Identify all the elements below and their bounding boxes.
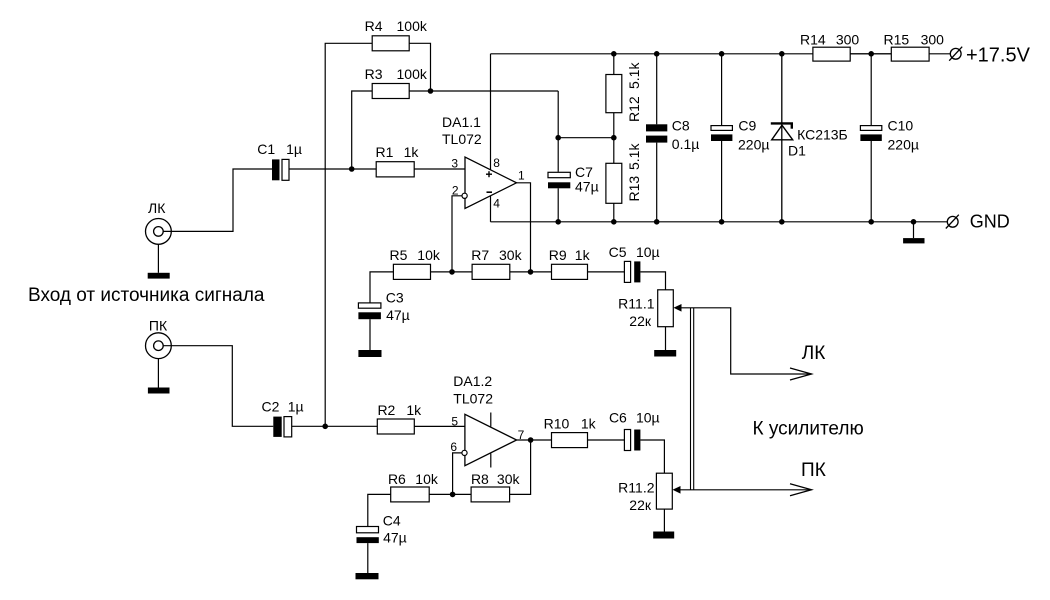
capacitor C2 1µ bbox=[273, 417, 281, 437]
wire output pin 7 bbox=[517, 439, 552, 441]
wire R11.2 wiper to ПК arrow bbox=[681, 489, 812, 491]
wiper arrow R11.2 bbox=[673, 486, 681, 494]
svg-text:R8: R8 bbox=[471, 471, 489, 487]
svg-text:C10: C10 bbox=[888, 118, 914, 134]
ground (C4) bbox=[356, 573, 379, 579]
resistor R1 1k bbox=[376, 162, 414, 177]
svg-text:220µ: 220µ bbox=[888, 137, 919, 153]
wire R11.1 wiper to ЛК arrow bbox=[682, 308, 812, 374]
svg-text:R2: R2 bbox=[377, 402, 395, 418]
node A junction (C1/R3/R1) bbox=[349, 166, 355, 172]
svg-text:30k: 30k bbox=[497, 471, 521, 487]
svg-text:220µ: 220µ bbox=[738, 137, 769, 153]
node R12 top on rail bbox=[611, 51, 617, 57]
capacitor C10 220µ bbox=[860, 126, 881, 131]
ground symbol near GND terminal bbox=[913, 222, 915, 238]
wire Vref down to divider bbox=[557, 91, 559, 138]
wire C7 to gnd rail bbox=[557, 188, 559, 222]
svg-text:К усилителю: К усилителю bbox=[753, 419, 864, 440]
wire from ЛК jack to C1 bbox=[163, 169, 272, 231]
wire R11.1 to ground bbox=[665, 327, 667, 350]
wire rail through D1 to gnd rail bbox=[781, 54, 783, 222]
GND rail bbox=[491, 221, 948, 223]
wire C8 to gnd rail bbox=[656, 143, 658, 222]
node output/R7/R9 junction bbox=[528, 269, 534, 275]
capacitor C6 10µ bbox=[624, 430, 630, 451]
svg-text:DA1.2: DA1.2 bbox=[453, 373, 492, 389]
svg-text:C1: C1 bbox=[257, 141, 275, 157]
node C10 bottom on rail bbox=[868, 219, 874, 225]
wire output pin 1 bbox=[517, 183, 531, 272]
wire output down to R8 bbox=[510, 440, 531, 494]
svg-text:300: 300 bbox=[921, 32, 945, 48]
svg-text:R11.1: R11.1 bbox=[618, 296, 655, 312]
wire rail to C9 bbox=[721, 54, 723, 126]
svg-text:R12: R12 bbox=[626, 96, 642, 122]
svg-text:8: 8 bbox=[493, 156, 500, 170]
wire rail to R12 bbox=[613, 54, 615, 75]
op-amp U DA1.1 TL072 triangle bbox=[465, 157, 517, 209]
pin 2 inverting input circle bbox=[462, 193, 467, 198]
top +17.5V rail bbox=[491, 53, 813, 55]
svg-text:R11.2: R11.2 bbox=[618, 480, 655, 496]
svg-text:DA1.1: DA1.1 bbox=[442, 114, 481, 130]
svg-text:4: 4 bbox=[493, 197, 500, 211]
connector XS2 (ПК input jack) bbox=[146, 333, 172, 359]
arrowhead ЛК output bbox=[790, 368, 812, 380]
svg-text:D1: D1 bbox=[788, 143, 806, 159]
svg-text:3: 3 bbox=[451, 157, 458, 171]
resistor R2 1k bbox=[377, 419, 414, 434]
svg-text:ПК: ПК bbox=[149, 318, 168, 334]
svg-text:R7: R7 bbox=[471, 247, 489, 263]
svg-text:5.1k: 5.1k bbox=[626, 62, 642, 89]
wire C2 to R2 (node B) bbox=[292, 425, 378, 427]
svg-text:C8: C8 bbox=[672, 117, 690, 133]
capacitor C9 220µ bbox=[711, 126, 732, 131]
svg-text:R13: R13 bbox=[626, 176, 642, 202]
svg-text:10k: 10k bbox=[415, 471, 439, 487]
ground (C3) bbox=[358, 350, 381, 357]
svg-text:300: 300 bbox=[836, 32, 860, 48]
arrowhead ПК output bbox=[790, 484, 812, 496]
resistor R4 100k bbox=[372, 36, 409, 51]
wire pin 2 to feedback node bbox=[452, 196, 462, 272]
resistor R12 5.1k bbox=[606, 75, 622, 113]
svg-text:22к: 22к bbox=[629, 497, 652, 513]
node D1 top on rail bbox=[779, 51, 785, 57]
node C9 top on rail bbox=[719, 51, 725, 57]
node output pin 7 junction bbox=[528, 437, 534, 443]
svg-text:C3: C3 bbox=[386, 290, 404, 306]
svg-text:1k: 1k bbox=[581, 415, 597, 431]
zener diode D1 КС213Б bbox=[771, 122, 793, 124]
svg-text:R15: R15 bbox=[883, 32, 909, 48]
wire R4 left leg down to node B bbox=[325, 43, 372, 426]
wire ПК jack to ground bbox=[157, 359, 159, 388]
resistor R15 300 bbox=[891, 47, 929, 61]
capacitor C8 0.1µ bbox=[646, 124, 667, 131]
svg-text:1k: 1k bbox=[406, 402, 422, 418]
wire R3 right to Vref bbox=[409, 90, 558, 92]
svg-text:100k: 100k bbox=[397, 66, 428, 82]
svg-text:ЛК: ЛК bbox=[148, 200, 166, 216]
resistor R6 10k bbox=[391, 487, 430, 502]
wire Vref node down to C7 bbox=[557, 138, 559, 172]
svg-text:5.1k: 5.1k bbox=[626, 143, 642, 170]
wire from ПК jack to C2 bbox=[163, 346, 273, 427]
node D1 bottom on rail bbox=[779, 219, 785, 225]
svg-text:R4: R4 bbox=[365, 18, 383, 34]
wire R12 to R13 bbox=[613, 113, 615, 164]
svg-text:ПК: ПК bbox=[801, 460, 826, 481]
wire R5 left leg from C3 bbox=[370, 272, 393, 303]
wire R13 to gnd rail bbox=[613, 203, 615, 222]
svg-text:100k: 100k bbox=[397, 18, 428, 34]
power stub bottom DA1.2 bbox=[490, 454, 492, 468]
op-amp DA1.1 plus sign bbox=[486, 173, 492, 175]
svg-text:1µ: 1µ bbox=[288, 398, 304, 414]
resistor R8 30k bbox=[471, 487, 510, 502]
svg-text:2: 2 bbox=[452, 183, 459, 197]
wire C1 to R1 (node A) bbox=[289, 168, 376, 170]
resistor R9 1k bbox=[552, 264, 588, 279]
wire C5 to R11.1 bbox=[640, 272, 665, 290]
svg-text:C5: C5 bbox=[609, 244, 627, 260]
wire Vref to R12/R13 junction bbox=[558, 137, 614, 139]
potentiometer R11.1 22к bbox=[658, 290, 674, 327]
wiper arrow R11.1 bbox=[674, 304, 682, 312]
svg-text:47µ: 47µ bbox=[383, 530, 407, 546]
power stub top DA1.2 bbox=[490, 413, 492, 427]
wire ЛК jack to ground bbox=[157, 244, 159, 272]
svg-text:0.1µ: 0.1µ bbox=[672, 136, 700, 152]
wire R5 to R7 (feedback node) bbox=[431, 271, 473, 273]
svg-text:47µ: 47µ bbox=[575, 179, 599, 195]
node ground symbol on rail bbox=[911, 219, 917, 225]
svg-text:10k: 10k bbox=[417, 247, 441, 263]
wire C9 to gnd rail bbox=[721, 141, 723, 222]
terminal +17.5V bbox=[950, 48, 961, 59]
capacitor C3 47µ bbox=[358, 303, 381, 308]
svg-text:R3: R3 bbox=[365, 66, 383, 82]
wire pin 6 to feedback node bbox=[453, 453, 462, 495]
svg-text:C6: C6 bbox=[609, 410, 627, 426]
wire R9 to C5 bbox=[588, 271, 625, 273]
svg-text:22к: 22к bbox=[629, 313, 652, 329]
wire R4 right to Vref node bbox=[409, 43, 430, 91]
svg-text:R1: R1 bbox=[376, 144, 394, 160]
node R3/R4 junction bbox=[428, 88, 434, 94]
wire R7 to output node bbox=[510, 271, 552, 273]
svg-text:R10: R10 bbox=[544, 415, 570, 431]
capacitor C1 1µ bbox=[272, 159, 280, 180]
node C8 top on rail bbox=[654, 51, 660, 57]
ground (R11.1) bbox=[654, 350, 676, 357]
pin 8 wire to +rail bbox=[490, 54, 492, 170]
wire R2 to pin 5 bbox=[414, 425, 465, 427]
capacitor C4 47µ bbox=[357, 527, 379, 533]
ground (ПК jack) bbox=[148, 388, 170, 394]
wire node to C10 bbox=[870, 54, 872, 126]
svg-text:TL072: TL072 bbox=[453, 391, 493, 407]
node Vref/C7 junction bbox=[555, 135, 561, 141]
wire C3 to ground bbox=[369, 319, 371, 350]
resistor R3 100k bbox=[372, 84, 409, 99]
svg-text:6: 6 bbox=[450, 440, 457, 454]
svg-text:R6: R6 bbox=[388, 471, 406, 487]
node R12/R13 junction bbox=[611, 135, 617, 141]
op-amp U DA1.2 TL072 triangle bbox=[465, 414, 517, 465]
svg-text:C4: C4 bbox=[383, 512, 401, 528]
node feedback junction DA1.1 bbox=[449, 269, 455, 275]
svg-text:30k: 30k bbox=[499, 247, 523, 263]
svg-text:1k: 1k bbox=[404, 144, 420, 160]
svg-text:ЛК: ЛК bbox=[802, 343, 826, 364]
svg-text:R5: R5 bbox=[390, 247, 408, 263]
op-amp DA1.1 minus sign bbox=[487, 191, 493, 193]
wire rail to C8 bbox=[656, 54, 658, 125]
ground (ЛК jack) bbox=[148, 273, 170, 279]
wire R6 left leg from C4 bbox=[368, 494, 391, 526]
svg-text:TL072: TL072 bbox=[442, 131, 482, 147]
wire R11.2 to ground bbox=[663, 509, 665, 531]
svg-text:КС213Б: КС213Б bbox=[797, 126, 848, 142]
pin 4 wire to gnd rail bbox=[490, 196, 492, 222]
capacitor C7 47µ bbox=[548, 172, 570, 177]
resistor R14 300 bbox=[813, 47, 850, 61]
resistor R10 1k bbox=[552, 433, 588, 448]
node feedback junction DA1.2 bbox=[450, 492, 456, 498]
wire R14 to R15 node bbox=[850, 53, 891, 55]
potentiometer R11.2 22к bbox=[656, 473, 672, 509]
svg-text:1k: 1k bbox=[575, 247, 591, 263]
resistor R7 30k bbox=[472, 264, 510, 279]
mechanical link R11.1/R11.2 bbox=[690, 308, 692, 490]
pin 6 inverting input circle bbox=[462, 450, 467, 455]
connector XS1 (ЛК input jack) bbox=[146, 219, 172, 245]
wire R10 to C6 bbox=[588, 439, 625, 441]
svg-text:10µ: 10µ bbox=[636, 244, 660, 260]
svg-text:C2: C2 bbox=[262, 398, 280, 414]
svg-text:7: 7 bbox=[518, 428, 525, 442]
svg-text:5: 5 bbox=[451, 414, 458, 428]
svg-text:1µ: 1µ bbox=[286, 141, 302, 157]
node C9 bottom on rail bbox=[719, 219, 725, 225]
svg-text:47µ: 47µ bbox=[386, 307, 410, 323]
wire C6 to R11.2 bbox=[640, 440, 664, 473]
terminal GND bbox=[947, 216, 958, 227]
wire C4 to ground bbox=[367, 543, 369, 573]
resistor R13 5.1k bbox=[606, 163, 622, 203]
svg-text:R14: R14 bbox=[800, 32, 826, 48]
node R14/R15/C10 junction bbox=[868, 51, 874, 57]
svg-text:+17.5V: +17.5V bbox=[966, 45, 1031, 67]
svg-text:1: 1 bbox=[518, 169, 525, 183]
ground (R11.2) bbox=[653, 532, 674, 539]
svg-text:R9: R9 bbox=[549, 247, 567, 263]
svg-text:C9: C9 bbox=[738, 118, 756, 134]
node C8 bottom on rail bbox=[654, 219, 660, 225]
svg-text:10µ: 10µ bbox=[636, 410, 660, 426]
node C7 bottom on rail bbox=[555, 219, 561, 225]
node B junction (C2/R4/R2) bbox=[322, 424, 328, 430]
wire C10 to gnd rail bbox=[870, 141, 872, 222]
svg-text:GND: GND bbox=[970, 212, 1010, 232]
wire R6 to R8 (feedback node) bbox=[429, 493, 471, 495]
svg-text:Вход от источника сигнала: Вход от источника сигнала bbox=[28, 285, 265, 306]
wire R3 left leg down to node A bbox=[352, 91, 373, 169]
capacitor C5 10µ bbox=[624, 261, 630, 282]
node R13 bottom on rail bbox=[611, 219, 617, 225]
resistor R5 10k bbox=[393, 264, 430, 279]
wire R1 to pin 3 bbox=[414, 168, 465, 170]
